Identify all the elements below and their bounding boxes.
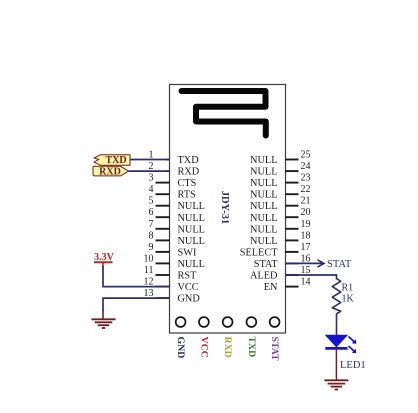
wire pin 16 STAT bbox=[285, 262, 323, 264]
svg-text:8: 8 bbox=[149, 230, 154, 241]
pin 2 stub bbox=[166, 170, 170, 172]
svg-text:NULL: NULL bbox=[250, 167, 277, 178]
pin 25 stub bbox=[285, 159, 299, 161]
svg-text:SWI: SWI bbox=[178, 247, 197, 258]
pad hole RXD bbox=[223, 317, 233, 327]
svg-text:NULL: NULL bbox=[178, 224, 205, 235]
pin 10 stub bbox=[156, 262, 171, 264]
pin 14 stub bbox=[285, 286, 299, 288]
svg-text:19: 19 bbox=[301, 219, 311, 230]
svg-text:10: 10 bbox=[144, 253, 154, 264]
wire 3.3V to pin 12 VCC bbox=[103, 266, 170, 287]
svg-text:21: 21 bbox=[301, 196, 311, 207]
svg-text:25: 25 bbox=[301, 150, 311, 161]
LED D1 triangle and cathode bar bbox=[325, 335, 347, 348]
svg-text:23: 23 bbox=[301, 173, 311, 184]
pin 24 stub bbox=[285, 170, 299, 172]
svg-text:NULL: NULL bbox=[250, 224, 277, 235]
pin 7 stub bbox=[156, 228, 171, 230]
pin 5 stub bbox=[156, 205, 171, 207]
svg-text:6: 6 bbox=[149, 207, 154, 218]
svg-text:NULL: NULL bbox=[250, 236, 277, 247]
svg-text:CTS: CTS bbox=[178, 178, 197, 189]
svg-text:NULL: NULL bbox=[178, 259, 205, 270]
pad hole GND bbox=[176, 317, 186, 327]
pin 21 stub bbox=[285, 205, 299, 207]
pin 9 stub bbox=[156, 251, 171, 253]
svg-text:RXD: RXD bbox=[222, 337, 233, 358]
pin 6 stub bbox=[156, 216, 171, 218]
wire TXD flag to pin 1 bbox=[130, 159, 170, 161]
module U1 JDY-31 body bbox=[170, 85, 286, 334]
pin 3 stub bbox=[156, 182, 171, 184]
wire pin 15 ALED to R1 bbox=[285, 275, 337, 280]
svg-text:NULL: NULL bbox=[250, 155, 277, 166]
pad hole TXD bbox=[247, 317, 257, 327]
svg-text:9: 9 bbox=[149, 242, 154, 253]
pin 15 stub bbox=[285, 274, 299, 276]
svg-text:RTS: RTS bbox=[178, 190, 197, 201]
svg-text:20: 20 bbox=[301, 207, 311, 218]
svg-text:NULL: NULL bbox=[178, 236, 205, 247]
svg-text:VCC: VCC bbox=[178, 282, 199, 293]
LED light emission arrows bbox=[349, 337, 357, 354]
arrow STAT bbox=[318, 260, 325, 267]
pin 20 stub bbox=[285, 216, 299, 218]
svg-text:GND: GND bbox=[175, 337, 186, 359]
pin 16 stub bbox=[285, 262, 299, 264]
pin 1 stub bbox=[166, 159, 170, 161]
svg-text:R1: R1 bbox=[342, 283, 354, 294]
pin 13 stub bbox=[156, 297, 171, 299]
svg-text:TXD: TXD bbox=[246, 337, 257, 358]
svg-text:11: 11 bbox=[144, 265, 154, 276]
pin 11 stub bbox=[156, 274, 171, 276]
svg-text:24: 24 bbox=[301, 161, 311, 172]
svg-text:14: 14 bbox=[301, 277, 311, 288]
svg-text:NULL: NULL bbox=[178, 213, 205, 224]
pin 17 stub bbox=[285, 251, 299, 253]
svg-text:NULL: NULL bbox=[250, 213, 277, 224]
svg-text:LED1: LED1 bbox=[340, 360, 366, 371]
port flag RXD bbox=[93, 166, 129, 177]
svg-text:17: 17 bbox=[301, 242, 311, 253]
svg-text:STAT: STAT bbox=[269, 337, 280, 362]
port flag TXD bbox=[94, 155, 130, 166]
svg-text:JDY-31: JDY-31 bbox=[219, 191, 230, 224]
power symbol 3.3V bbox=[94, 252, 115, 267]
svg-text:GND: GND bbox=[178, 294, 201, 305]
svg-text:EN: EN bbox=[264, 282, 278, 293]
svg-text:TXD: TXD bbox=[105, 155, 126, 166]
svg-text:STAT: STAT bbox=[254, 259, 278, 270]
svg-text:4: 4 bbox=[149, 184, 154, 195]
svg-text:RXD: RXD bbox=[178, 167, 200, 178]
svg-text:3: 3 bbox=[149, 173, 154, 184]
wire RXD flag to pin 2 bbox=[129, 170, 171, 172]
svg-text:5: 5 bbox=[149, 196, 154, 207]
wire LED1 cathode to ground bbox=[335, 348, 337, 380]
svg-text:TXD: TXD bbox=[178, 155, 200, 166]
resistor R1 bbox=[332, 279, 340, 314]
svg-text:18: 18 bbox=[301, 230, 311, 241]
pin 22 stub bbox=[285, 193, 299, 195]
ground symbol right bbox=[324, 380, 348, 389]
ground symbol left bbox=[92, 310, 116, 328]
pin 19 stub bbox=[285, 228, 299, 230]
pin 8 stub bbox=[156, 239, 171, 241]
svg-text:1K: 1K bbox=[342, 294, 355, 305]
svg-text:22: 22 bbox=[301, 184, 311, 195]
svg-text:ALED: ALED bbox=[250, 271, 278, 282]
svg-text:7: 7 bbox=[149, 219, 154, 230]
svg-text:RST: RST bbox=[178, 271, 198, 282]
svg-text:NULL: NULL bbox=[250, 178, 277, 189]
pad hole VCC bbox=[199, 317, 209, 327]
wire pin 13 GND to ground bbox=[103, 298, 170, 311]
pin 4 stub bbox=[156, 193, 171, 195]
pin 18 stub bbox=[285, 239, 299, 241]
pin 12 stub bbox=[156, 286, 171, 288]
wire R1 to LED1 bbox=[336, 314, 338, 337]
svg-text:RXD: RXD bbox=[99, 167, 121, 178]
svg-text:NULL: NULL bbox=[250, 201, 277, 212]
antenna meander trace bbox=[182, 91, 266, 136]
svg-text:SELECT: SELECT bbox=[240, 247, 278, 258]
svg-text:STAT: STAT bbox=[327, 259, 352, 270]
svg-text:NULL: NULL bbox=[250, 190, 277, 201]
svg-text:NULL: NULL bbox=[178, 201, 205, 212]
svg-text:VCC: VCC bbox=[198, 337, 209, 358]
pin 23 stub bbox=[285, 182, 299, 184]
pad hole STAT bbox=[270, 317, 280, 327]
